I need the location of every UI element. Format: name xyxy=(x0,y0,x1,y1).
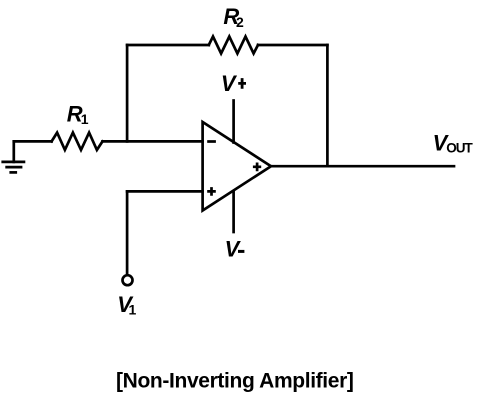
resistor R2 xyxy=(209,37,258,54)
wire feedback right vertical xyxy=(326,45,329,166)
svg-text:OUT: OUT xyxy=(446,141,473,156)
ground xyxy=(1,141,25,172)
wire ground to R1 xyxy=(14,140,52,143)
label V- minus sign xyxy=(238,250,244,253)
svg-text:[Non-Inverting Amplifier]: [Non-Inverting Amplifier] xyxy=(116,369,354,392)
wire top left to R2 xyxy=(127,44,209,47)
label V+ plus sign xyxy=(238,78,246,89)
op-amp non-inverting + marker xyxy=(207,187,216,196)
wire R2 to right vertical xyxy=(258,44,327,47)
terminal V1 circle xyxy=(123,275,133,285)
wire R1 to inverting input xyxy=(103,140,203,143)
wire output xyxy=(271,165,454,168)
svg-text:1: 1 xyxy=(129,301,137,317)
svg-text:V: V xyxy=(225,237,242,262)
op-amp output + marker xyxy=(253,163,261,172)
op-amp inverting - marker xyxy=(207,140,216,143)
V- supply line xyxy=(232,191,235,232)
wire V1 to non-inverting input xyxy=(127,190,202,193)
wire feedback left vertical xyxy=(126,45,129,141)
op-amp U1 triangle xyxy=(203,122,271,211)
resistor R1 xyxy=(52,133,103,150)
svg-text:1: 1 xyxy=(81,111,89,127)
wire V1 vertical xyxy=(126,191,129,274)
svg-text:V: V xyxy=(221,71,238,96)
svg-text:2: 2 xyxy=(236,14,244,30)
V+ supply line xyxy=(232,101,235,143)
